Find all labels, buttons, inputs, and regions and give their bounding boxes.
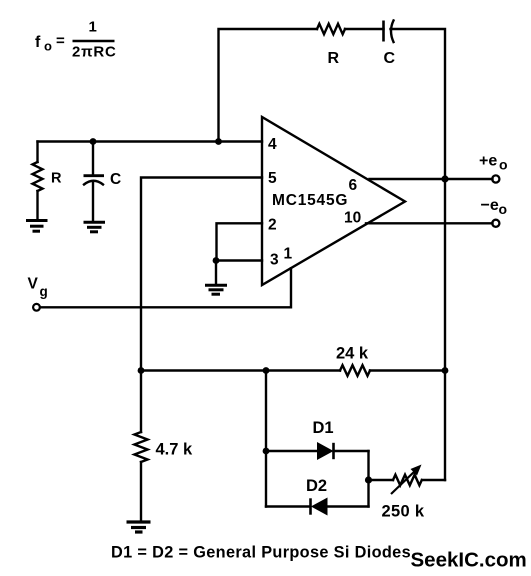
resistor R (input) xyxy=(33,142,43,221)
node: C junction on pin 4 row xyxy=(90,138,97,145)
wire: R to C (feedback) xyxy=(345,28,384,30)
svg-text:MC1545G: MC1545G xyxy=(272,192,348,209)
label V_g xyxy=(28,276,48,300)
wire: 24k row left segment xyxy=(141,369,340,371)
node: diode branch junction xyxy=(263,367,270,374)
svg-text:D1 = D2 = General Purpose Si D: D1 = D2 = General Purpose Si Diodes xyxy=(111,544,411,562)
wire: pin 5 to left vertical down to 24k node xyxy=(141,178,262,371)
svg-text:R: R xyxy=(51,171,62,187)
label -e_o xyxy=(481,197,508,217)
svg-text:4.7 k: 4.7 k xyxy=(156,441,194,459)
svg-text:D1: D1 xyxy=(313,419,334,437)
capacitor C (feedback) xyxy=(384,21,394,43)
resistor 4.7k xyxy=(134,432,147,462)
svg-text:250 k: 250 k xyxy=(382,503,425,521)
wire: pin 3 xyxy=(216,259,262,261)
svg-text:+e: +e xyxy=(479,153,497,170)
diode D2 xyxy=(266,498,369,514)
potentiometer 250k xyxy=(369,465,446,495)
wire: diode branch vertical xyxy=(265,371,267,507)
diode D1 xyxy=(266,443,369,459)
svg-text:C: C xyxy=(384,50,396,67)
wire: 24k row right segment xyxy=(370,369,445,371)
svg-text:C: C xyxy=(110,171,121,188)
wire: pin 2 loop xyxy=(217,223,263,260)
node: pot junction xyxy=(365,476,372,483)
ground (pins 2,3) xyxy=(205,261,227,295)
svg-text:o: o xyxy=(499,157,508,173)
svg-text:5: 5 xyxy=(268,170,277,187)
svg-text:24 k: 24 k xyxy=(336,345,369,363)
svg-text:4: 4 xyxy=(268,136,277,153)
node: 24k right junction xyxy=(442,367,449,374)
node: D1 left junction xyxy=(263,448,270,455)
ground (under 4.7k) xyxy=(127,522,151,532)
svg-text:3: 3 xyxy=(270,252,279,269)
terminal -e_o xyxy=(492,220,499,227)
resistor 24k xyxy=(340,365,370,376)
node: pin 3 junction xyxy=(213,257,220,264)
svg-text:o: o xyxy=(44,39,52,54)
svg-text:D2: D2 xyxy=(306,477,327,495)
ground (under input R) xyxy=(26,221,48,232)
wire: feedback top-left vertical and segment to R xyxy=(219,29,318,142)
op-amp U1 MC1545G xyxy=(262,117,405,285)
resistor R (feedback) xyxy=(317,24,345,34)
wire: pin 4 input row xyxy=(38,140,263,142)
svg-text:−e: −e xyxy=(481,197,499,214)
wire: pot right vertical up to 24k node xyxy=(444,371,446,481)
svg-text:R: R xyxy=(328,50,340,67)
wire: C to right vertical down to +eo node xyxy=(391,29,446,179)
formula f_o = 1/(2piRC) xyxy=(35,19,117,61)
svg-text:f: f xyxy=(35,34,41,51)
svg-text:1: 1 xyxy=(89,19,97,36)
svg-text:10: 10 xyxy=(344,210,361,227)
wire: D1 right vertical down to pot node xyxy=(367,451,369,507)
capacitor C (input) xyxy=(84,142,105,222)
wire: output 6 to +e_o terminal xyxy=(370,178,493,180)
wire: V_g row to pin 1 drop xyxy=(40,268,291,307)
node: feedback junction on pin 4 row xyxy=(215,138,222,145)
svg-text:2πRC: 2πRC xyxy=(72,44,117,61)
wire: left vertical to 4.7k xyxy=(140,371,142,433)
node: +e_o junction xyxy=(441,175,448,182)
wire: right vertical from +e_o node to 24k node xyxy=(444,179,446,371)
svg-text:=: = xyxy=(56,33,65,50)
svg-text:SeekIC.com: SeekIC.com xyxy=(411,549,527,572)
terminal +e_o xyxy=(492,175,499,182)
svg-text:1: 1 xyxy=(284,246,293,263)
ground (under input C) xyxy=(84,222,106,232)
node: 24k left junction xyxy=(138,367,145,374)
terminal V_g xyxy=(33,304,40,311)
svg-text:g: g xyxy=(40,284,48,299)
svg-text:o: o xyxy=(499,201,508,217)
wire: 4.7k to ground xyxy=(140,462,142,521)
svg-text:6: 6 xyxy=(349,177,358,194)
label +e_o xyxy=(479,153,508,173)
svg-text:2: 2 xyxy=(268,217,277,234)
svg-text:V: V xyxy=(28,276,39,293)
wire: output 10 to -e_o terminal xyxy=(366,222,493,224)
